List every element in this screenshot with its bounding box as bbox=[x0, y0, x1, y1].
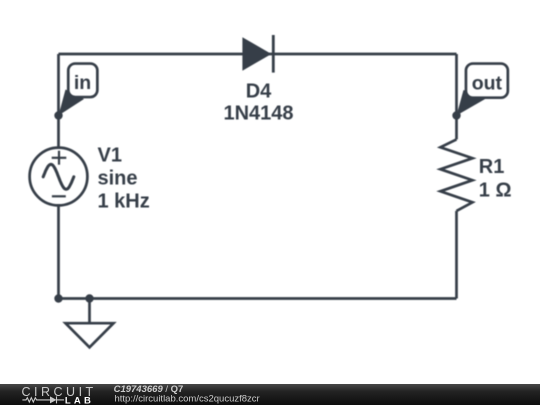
wire bottom horizontal (ground rail) bbox=[59, 297, 457, 300]
svg-text:V1: V1 bbox=[98, 145, 122, 167]
node flag out: callout tail bbox=[457, 90, 487, 116]
svg-text:1 kHz: 1 kHz bbox=[98, 191, 150, 213]
node junction dot at ground stem bbox=[85, 294, 93, 302]
footer black bar bbox=[0, 384, 540, 405]
wire left vertical (in node through V1 to ground rail) bbox=[57, 54, 60, 299]
svg-text:1N4148: 1N4148 bbox=[223, 103, 293, 125]
svg-text:1 Ω: 1 Ω bbox=[479, 180, 512, 202]
wire top horizontal (in node to out node via D4) bbox=[59, 53, 457, 56]
svg-text:sine: sine bbox=[98, 168, 138, 190]
node flag in: callout tail bbox=[59, 90, 85, 116]
CircuitLab logo art: diode triangle bbox=[50, 396, 57, 403]
ground stem wire bbox=[88, 299, 91, 324]
svg-text:R1: R1 bbox=[479, 156, 505, 178]
diode D4 anode triangle bbox=[242, 37, 271, 70]
svg-text:http://circuitlab.com/cs2qucuz: http://circuitlab.com/cs2qucuzf8zcr bbox=[115, 394, 260, 405]
svg-text:in: in bbox=[74, 72, 91, 94]
diode D4 cathode bar bbox=[272, 35, 275, 73]
svg-text:LAB: LAB bbox=[65, 395, 94, 405]
svg-text:D4: D4 bbox=[246, 81, 272, 103]
voltage source V1 plus sign bbox=[52, 151, 67, 165]
node flag out: rounded box bbox=[466, 64, 508, 98]
voltage source V1 circle body bbox=[30, 148, 88, 206]
wire right vertical upper (out node to R1 top) bbox=[455, 54, 458, 139]
voltage source V1 minus sign bbox=[52, 195, 66, 197]
node junction dot bottom-left corner bbox=[54, 294, 62, 302]
node junction dot at out bbox=[452, 111, 460, 119]
voltage source V1 sine waveform bbox=[43, 164, 74, 189]
node flag in: rounded box bbox=[68, 64, 97, 98]
resistor R1 zigzag bbox=[440, 139, 472, 211]
wire right vertical lower (R1 bottom to ground rail) bbox=[455, 211, 458, 299]
svg-text:out: out bbox=[472, 73, 503, 95]
CircuitLab logo art: wire with resistor zigzag bbox=[22, 396, 64, 403]
node junction dot at in bbox=[54, 111, 62, 119]
ground triangle symbol bbox=[66, 323, 114, 347]
